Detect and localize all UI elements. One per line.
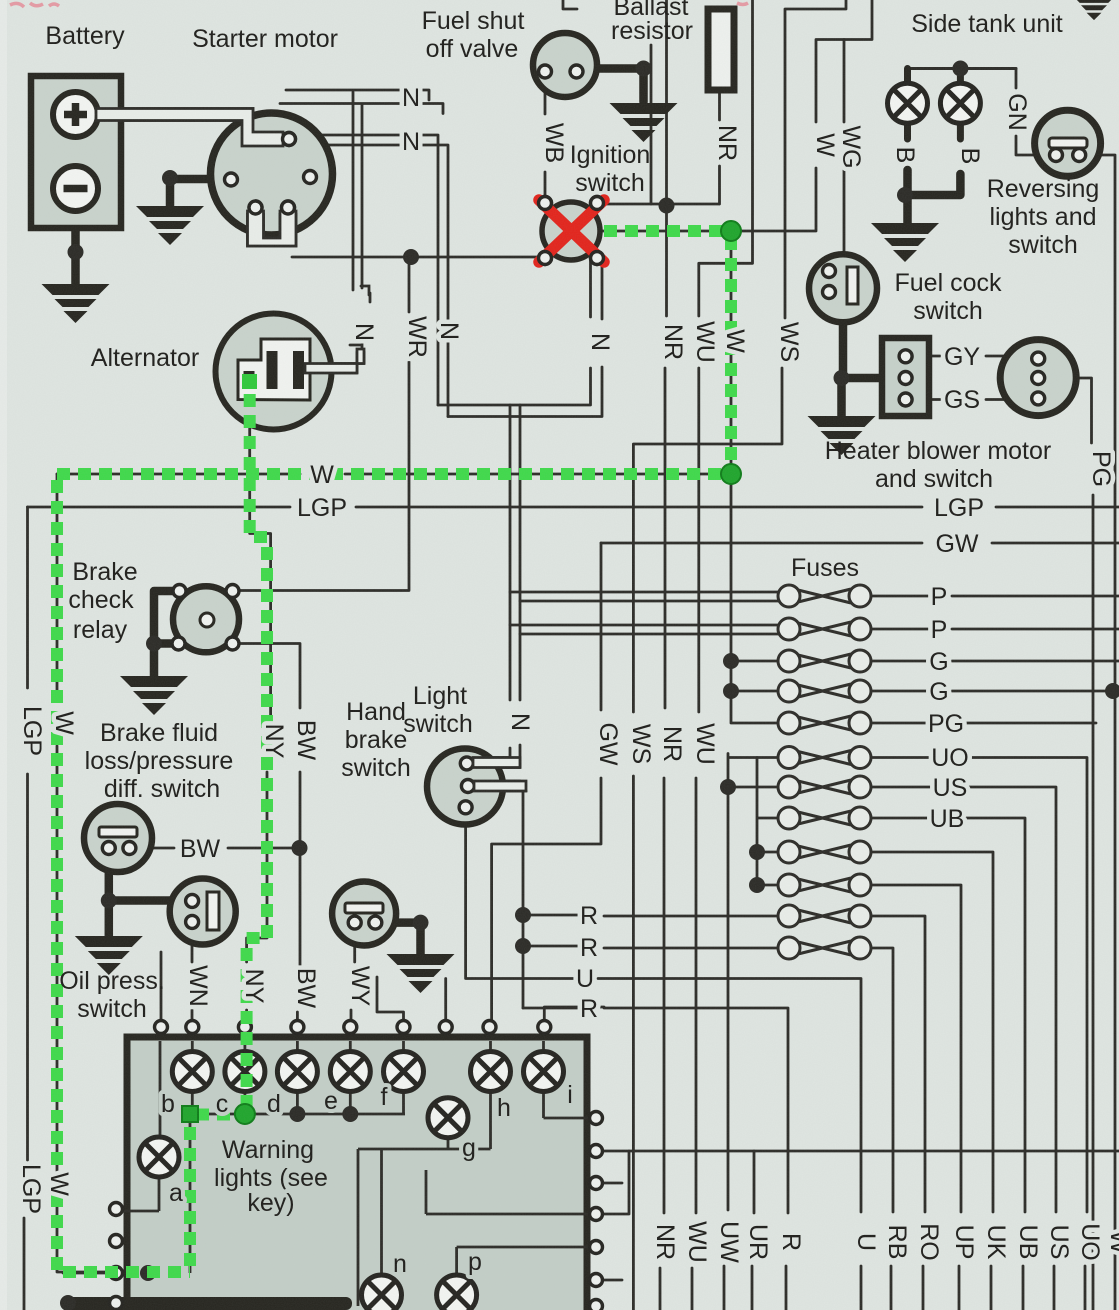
wire GY [912,355,1032,358]
node green alternator square [242,374,257,389]
ballast resistor [708,9,734,90]
node fuse3 junction [723,653,739,669]
wire highlight bottom left [63,1266,190,1278]
wire battery positive (white pair to starter) [121,109,283,147]
node side tank bar junction [952,61,968,77]
fuse F6 [778,747,871,769]
wire highlight left vertical [51,480,63,1272]
wire lamp h g bus [358,1092,491,1306]
fuel shut off valve [533,33,597,97]
ground top right partial [1073,0,1115,20]
wire lamp p stem [457,1247,589,1275]
wire warning lamp stems top row [192,1037,543,1051]
reversing lights switch [1035,110,1101,176]
node handbrake ground elbow [413,915,429,931]
wire U [466,814,861,1310]
wire fuse9 UK out [871,852,993,1310]
node bottom left junction [140,1265,156,1281]
warning lamp a [139,1137,179,1177]
wire box stub 1183 [602,1182,622,1185]
node green W junction [721,464,741,484]
ground handbrake [387,954,455,993]
wire g terminal feed [444,979,447,1021]
node bus d [289,1106,305,1122]
wire fuse6/7 drop [724,754,778,1310]
wire N lower pair to ignition [300,135,448,417]
wire N branch pair to light switch [473,405,520,768]
wire lamp i terminal R feed [544,1007,604,1020]
wire stub top edge [563,0,577,9]
wire R fuse11 [523,915,778,916]
scan artifact pink marks [10,3,748,7]
wire side tank bar [908,67,1017,70]
wire highlight ignition to node [604,225,731,237]
wire N ignition pair [438,260,602,417]
wire highlight W horizontal [57,468,725,480]
wire NR ballast [718,90,721,204]
battery [31,76,121,228]
warning lamp f [384,1052,424,1092]
side tank lamp 2 [940,83,980,123]
wire fuse8 UB out [871,818,1025,1310]
node fuel valve ground elbow [636,61,652,77]
warning lights box [127,1037,587,1310]
warning lamp g [428,1098,468,1138]
wire fuse8-10 drop [757,758,778,886]
node fuse7 junction [720,779,736,795]
node bus e [342,1106,358,1122]
ignition switch [542,202,600,260]
node green ignition [721,221,741,241]
wire starter ground thick [170,179,226,206]
fuse F12 [778,937,871,959]
node fuse9 junction [749,844,765,860]
wire lamp a feed [123,1037,160,1211]
fuse F5 [778,712,871,734]
wire fuse6 UO out [871,758,1087,1310]
wire R bottom [523,1008,788,1310]
wire ignition top horizontal [603,203,719,206]
wire handbrake ground thick [381,923,421,954]
wire W ignition [601,0,872,231]
wire starter U loop white band [248,211,297,246]
wire lamp stems redraw inside box [123,1041,589,1306]
wire f terminal feed [377,977,404,1020]
ignition switch red cross [539,200,604,262]
warning lamp e [330,1052,370,1092]
wire pair branch to fuse2 [510,625,778,634]
wire fuse7 US out [871,787,1056,1310]
wire pair branch to fuse1 [510,592,778,601]
wire brake fluid ground thick [109,854,186,936]
hand brake switch [332,882,396,946]
wire box elbow x629 [602,1151,629,1214]
node green c junction [235,1104,255,1124]
node BW junction [292,840,308,856]
wire W fuse feed x731 [731,231,778,723]
fuse F1 [778,585,871,607]
wire NY alternator drop [247,388,271,1021]
ground relay [120,676,188,715]
wire BW horizontal [136,847,292,850]
fuse F9 [778,841,871,863]
wire GN [1016,69,1049,156]
wire fuel valve ground thick [583,69,644,103]
light switch [427,749,503,825]
ground fuel valve [610,103,678,142]
wire LGP horizontal [28,506,1119,509]
wire N starter to brackets [280,90,443,114]
node brake fluid ground junction [101,893,117,909]
wire fuse2 P out [871,628,1119,631]
fuse F8 [778,807,871,829]
ground starter [162,170,178,186]
wire WB [544,78,547,196]
wire fuse12 RB out [871,948,893,1310]
fuel cock switch [809,254,877,322]
wire warning bus [190,1113,405,1116]
node fuel cock junction [834,370,850,386]
wire light switch R white band [474,781,526,791]
wire NR [660,206,667,1310]
ground heater [808,416,876,455]
starter motor M1 [211,113,333,235]
side tank lamp 1 [888,83,928,123]
alternator [216,314,332,430]
heater blower switch [882,338,929,416]
wire side tank lamp stems thick [908,69,961,140]
terminals warning box left [110,1203,123,1216]
heater blower motor [1000,340,1076,416]
oil pressure switch [170,879,236,945]
wire WN [191,929,194,1021]
wire GS [912,398,1032,401]
node R junction 2 [515,938,531,954]
wire N connector drop [353,92,370,302]
wire battery negative thick [71,209,80,284]
fuse F7 [778,776,871,798]
wire light switch mid to R column [474,781,526,1008]
fuse F10 [778,874,871,896]
wire fuse10 UP out [871,885,961,1310]
wire lamp n stem [380,1149,383,1275]
wire long horizontal from warning box [602,1150,1119,1153]
wire GW horizontal [601,542,1119,545]
wire box inner 1214 [426,1170,589,1214]
fuse F11 [778,905,871,927]
wire starter to ignition [292,256,539,259]
wire a terminal column [160,952,163,1020]
wire BW relay drop [239,644,300,1021]
wire reversing switch out / right edge vertical [1086,155,1115,1310]
ground side tank [871,223,939,262]
wire lamp bottoms to bus [192,1092,403,1114]
wire UR column [752,1151,754,1310]
wire fuse3 G out [871,660,1119,663]
wire left terminal to bar [63,1273,190,1297]
starter terminals over band [283,133,296,146]
warning lamp p [437,1275,477,1310]
wire highlight up right leg [184,1118,196,1266]
node green b square [182,1106,198,1122]
wire vertical x651 [650,45,653,204]
terminals warning box right [590,1112,603,1125]
wire vertical x666 [665,0,668,204]
wire GW vertical to warning box [492,543,601,1020]
ground battery [42,284,110,323]
warning lamp h [471,1052,511,1092]
fuse F2 [778,618,871,640]
ignition terminals over cross [539,197,552,210]
wire W left vertical [57,474,190,1272]
node R junction 1 [515,907,531,923]
fuse F3 [778,650,871,672]
wire battery positive white band [96,109,283,147]
terminals warning box top row [155,1021,168,1034]
brake check relay [173,586,239,652]
wire alternator N white band [305,349,364,373]
node starter wire junction [403,249,419,265]
wire highlight node down [725,237,737,474]
wire lamp i out [544,1092,590,1118]
warning lamp b [172,1052,212,1092]
node battery negative junction [68,244,84,260]
wire fuse5 PG out [871,722,1096,725]
warning lamp c [225,1052,265,1092]
node G line right junction [1105,683,1119,699]
ground brake fluid [75,936,143,975]
bus bar bottom [62,1297,352,1310]
fuse F4 [778,680,871,702]
node NR junction [659,198,675,214]
wire N alternator feed [305,341,364,373]
wire fuse4 G out [871,690,1110,693]
wire highlight c lamp up [247,386,267,1108]
node fuse4 junction [723,683,739,699]
brake fluid loss switch [84,804,152,872]
wire fuse1 P out [871,595,1119,598]
wire WY [351,929,355,1020]
node B ground junction [897,187,913,203]
node fuse10 junction [749,877,765,893]
wire WG [843,40,846,256]
wire highlight b to c [196,1109,238,1121]
wire R fuse12 [523,946,778,948]
wire WU [692,0,753,1310]
wire W horizontal [57,473,731,476]
wire fuel cock thick [842,302,900,416]
warning lamp i [524,1052,564,1092]
wire WR [239,257,409,591]
wire fuse11 RO out [871,916,925,1310]
wire WS [633,0,846,1310]
wire box stub 1280 [602,1279,622,1282]
wire green leg black x190 [189,1118,192,1273]
wire PG heater [1044,378,1093,1310]
warning lamp n [362,1275,402,1310]
warning lamp d [277,1052,317,1092]
node relay ground junction [146,636,162,652]
wire light switch N white band [473,758,520,768]
wire side tank B grounds thick [905,170,960,223]
wire LGP left vertical [24,507,28,1310]
wire relay bracket thick [154,591,173,676]
